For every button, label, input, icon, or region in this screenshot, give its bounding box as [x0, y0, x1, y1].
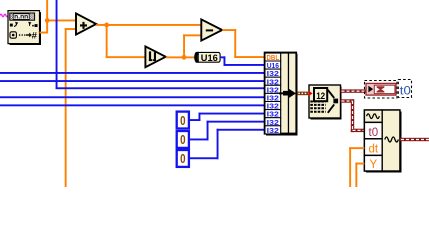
- bundle terminal U16: [265, 61, 281, 70]
- datetime icon: digital clock 12: [314, 88, 327, 101]
- wire: dt input orange from bottom edge: [349, 147, 364, 187]
- U16 conversion node: [194, 52, 220, 63]
- bundle output arrow: [279, 89, 296, 98]
- string wire (pink squiggle into scan icon): [0, 14, 8, 17]
- wire: junction B right to subtract top input: [107, 24, 202, 26]
- scan value node shadow: [10, 12, 41, 45]
- bundle terminal DBL: [265, 53, 281, 62]
- bundle terminal I32 x8: [265, 69, 281, 135]
- wire: blue horizontal from left edge to bundle I32 #1: [0, 72, 265, 74]
- svg-text:t0: t0: [400, 84, 411, 98]
- round toward -infinity function: [145, 46, 165, 67]
- t0 timestamp indicator terminal: [366, 83, 396, 95]
- timestamp wire: datetime down to build-waveform t0: [341, 99, 365, 132]
- datetime node shadow: [311, 87, 342, 120]
- wire: orange from top edge down to junction: [46, 0, 48, 21]
- waveform wire out of build waveform to right edge: [400, 138, 429, 141]
- build waveform output column: [382, 110, 400, 171]
- svg-text:n.nn: n.nn: [14, 15, 28, 21]
- wire: floor output to junction C: [166, 56, 185, 58]
- build waveform row: t0: [364, 122, 382, 138]
- svg-text:U16: U16: [201, 53, 218, 63]
- wire: blue vertical from top edge, elbow right into bundle I32 #3: [56, 0, 265, 89]
- scan value icon: circle-dot dashed arrow to #: [10, 31, 38, 42]
- svg-text:0: 0: [180, 113, 185, 128]
- wire: junction to add top input: [47, 20, 76, 22]
- wire: junction C right into U16 conversion: [184, 56, 196, 58]
- scan value icon: format string strip with n.nn: [10, 13, 35, 21]
- wire: constant 1 to bundle I32 #6: [189, 113, 265, 121]
- svg-text:0: 0: [180, 151, 185, 166]
- seconds-to-datetime node body: [309, 85, 341, 118]
- build waveform row: waveform in: [364, 110, 382, 122]
- t0 label selection marquee: [398, 80, 411, 98]
- svg-text:0: 0: [180, 132, 185, 147]
- numeric constant 0 (third): [177, 150, 189, 167]
- wire: blue horizontal from left edge to bundle I32 #2: [0, 80, 265, 82]
- junction node C: [182, 55, 187, 60]
- t0 indicator selection marquee: [365, 81, 398, 99]
- wire: U16 output right down to bundle U16 input (blue): [220, 56, 265, 66]
- wire: add output to junction dot: [96, 24, 107, 26]
- scan value icon: middle arrows: [10, 22, 38, 27]
- add function (+): [76, 13, 96, 34]
- wire: subtract output right then down to bundle DBL input: [222, 29, 265, 58]
- svg-text:#: #: [32, 31, 38, 42]
- wire: orange from bottom edge up to add bottom input: [65, 28, 77, 187]
- svg-text:I32: I32: [267, 128, 279, 135]
- build waveform node body: [364, 110, 400, 171]
- red coercion arrow into datetime node: [308, 91, 312, 97]
- cluster wire (brown dotted) bundle to datetime node: [297, 92, 309, 96]
- bundle node body: [264, 52, 296, 134]
- wire: blue horizontal from left edge to bundle I32 #4: [0, 96, 265, 98]
- wire: scan icon output up to junction: [40, 20, 49, 34]
- wire: junction B down then right to round-floor input: [106, 25, 146, 58]
- build waveform row: dt: [364, 139, 382, 156]
- numeric constant 0 (first): [177, 112, 189, 129]
- build waveform row: Y: [364, 155, 382, 171]
- svg-text:Y: Y: [369, 159, 377, 171]
- scan value node U1 body: [8, 11, 40, 44]
- wire: constant 2 to bundle I32 #7: [189, 121, 265, 141]
- bundle node shadow: [266, 54, 298, 136]
- wire: constant 3 to bundle I32 #8: [189, 129, 265, 159]
- svg-text:12: 12: [316, 91, 325, 101]
- bundle inner columns: [281, 53, 296, 133]
- junction node A: [45, 18, 50, 23]
- datetime icon: calendar grid: [310, 102, 325, 112]
- wire: Y input orange from bottom edge: [355, 163, 364, 187]
- subtract function (-): [201, 19, 222, 40]
- datetime icon: greater-than with square: [328, 90, 338, 113]
- timestamp wire: datetime to t0 indicator: [341, 89, 367, 92]
- wire: junction C up then right to subtract bottom input: [183, 34, 201, 57]
- svg-text:t0: t0: [369, 127, 379, 139]
- junction node B: [104, 23, 109, 28]
- build waveform node shadow: [366, 112, 402, 173]
- svg-text:dt: dt: [369, 143, 379, 155]
- wire: blue horizontal from left edge to bundle I32 #5: [0, 104, 265, 106]
- numeric constant 0 (second): [177, 131, 189, 148]
